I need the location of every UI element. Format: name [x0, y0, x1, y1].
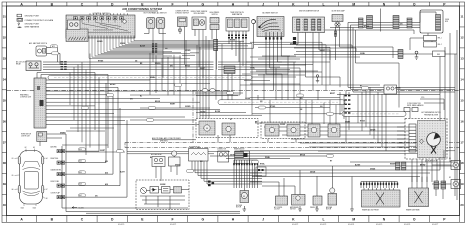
svg-text:RT/GE: RT/GE — [185, 65, 190, 67]
svg-text:RT/SW: RT/SW — [230, 40, 236, 42]
evaporator ladder connector — [409, 124, 416, 152]
svg-text:WS: WS — [300, 98, 303, 100]
svg-text:GROUND POINT: GROUND POINT — [25, 16, 41, 18]
heater unit front box — [362, 190, 401, 207]
blower switch pins — [265, 32, 267, 74]
blower switch S12 body — [257, 17, 284, 37]
svg-text:RES: RES — [437, 54, 440, 56]
pressure switch circle F3 — [141, 188, 147, 194]
svg-text:12: 12 — [460, 36, 464, 40]
svg-text:GE/WS: GE/WS — [370, 129, 375, 131]
ignition switch pins — [297, 33, 299, 45]
svg-text:61-0270: 61-0270 — [118, 224, 124, 226]
svg-text:15: 15 — [460, 98, 464, 102]
glove box lamp body — [332, 15, 343, 22]
fuse box connector comb — [436, 15, 441, 31]
ignition switch contact bars — [297, 19, 300, 31]
aux condenser dashed box 2 — [261, 122, 305, 139]
wires from control unit top — [36, 73, 38, 79]
svg-text:WS: WS — [200, 161, 203, 163]
svg-text:CONNECTOR WITH PLUG DATA: CONNECTOR WITH PLUG DATA — [25, 19, 54, 22]
right edge motor R10 — [451, 161, 461, 170]
svg-text:GE: GE — [135, 60, 137, 62]
relay box K2 — [424, 42, 437, 47]
svg-text:WS/RT: WS/RT — [170, 103, 175, 105]
wires fuse area — [427, 33, 429, 36]
legend ground point 2 symbol — [18, 23, 20, 25]
diode box D1 — [150, 187, 159, 194]
svg-text:INSIDE TEMP. SENSOR: INSIDE TEMP. SENSOR — [191, 11, 208, 13]
svg-text:J: J — [262, 217, 264, 221]
ground point G5 — [415, 51, 418, 54]
svg-text:GE: GE — [300, 109, 302, 111]
unit box compressor clutch — [276, 196, 288, 205]
wire fan from control switch — [89, 38, 214, 58]
car ground labels — [12, 147, 48, 210]
inline connector X16 — [407, 18, 412, 28]
svg-text:G101: G101 — [21, 208, 25, 210]
svg-text:O: O — [413, 217, 416, 221]
ground wires bottom — [351, 177, 353, 207]
aux blower box 2 — [308, 124, 320, 137]
svg-text:GN/RT: GN/RT — [100, 150, 105, 152]
svg-text:35: 35 — [3, 98, 7, 102]
svg-text:39: 39 — [3, 182, 7, 186]
ground point G20 — [316, 75, 318, 77]
grommets on divider — [202, 89, 208, 92]
svg-text:14: 14 — [460, 77, 464, 81]
svg-text:19: 19 — [460, 182, 464, 186]
row numbers right — [460, 6, 465, 207]
car top view outline — [20, 151, 43, 205]
heater unit rear box — [409, 188, 429, 207]
svg-text:TEMP. SWITCH ON: TEMP. SWITCH ON — [230, 12, 243, 14]
wire elbows down from bus — [348, 23, 399, 108]
rotary symbol — [251, 19, 255, 23]
svg-text:61-0272: 61-0272 — [292, 224, 298, 226]
unit box aux fan motor — [328, 194, 337, 206]
svg-text:M1: M1 — [449, 158, 451, 160]
condenser wires — [217, 135, 219, 142]
evaporator temp switch body — [226, 18, 249, 32]
svg-text:GE/RT: GE/RT — [200, 68, 205, 70]
ignition feed wires right — [296, 44, 352, 46]
svg-text:G2: G2 — [25, 147, 27, 149]
svg-text:BOTTOM PANEL AC SWITCH: BOTTOM PANEL AC SWITCH — [144, 11, 168, 14]
svg-text:SWITCH: SWITCH — [290, 209, 296, 211]
svg-text:BLOWER: BLOWER — [236, 205, 242, 207]
unit box antifreeze switch — [292, 195, 306, 206]
svg-text:GN/WS: GN/WS — [185, 106, 190, 108]
svg-text:G4: G4 — [46, 158, 48, 160]
svg-text:32: 32 — [3, 36, 7, 40]
bottom long wires — [66, 211, 240, 213]
column letters bottom — [7, 216, 460, 223]
inline connector X2 — [61, 61, 67, 70]
svg-text:F: F — [172, 217, 174, 221]
check control unit N4 body — [37, 132, 47, 142]
svg-text:REL.2: REL.2 — [438, 44, 442, 46]
svg-text:61-0274: 61-0274 — [348, 224, 354, 226]
wire bus right mid — [337, 87, 455, 94]
service wires — [262, 185, 295, 187]
svg-text:GN/SW: GN/SW — [160, 184, 166, 186]
relay box K4 right mid — [384, 85, 397, 94]
control switch top pin ticks — [90, 13, 127, 15]
long vertical wires from band — [95, 73, 118, 151]
wire code labels — [60, 23, 426, 197]
inline connector X9 tall comb — [214, 40, 218, 51]
svg-text:GE/GN: GE/GN — [310, 171, 316, 173]
evaporator temp switch pins — [228, 31, 230, 44]
inside temp sensor pins — [194, 30, 196, 37]
svg-text:WS/GN: WS/GN — [155, 63, 161, 65]
svg-text:HORN SWITCH: HORN SWITCH — [21, 134, 31, 136]
wire runs right bottom — [250, 162, 455, 177]
right edge connector combs — [434, 181, 439, 189]
legend connector symbol — [17, 18, 23, 21]
svg-text:BL: BL — [140, 95, 142, 97]
column letters top — [7, 2, 460, 6]
wire comb bundle X32 — [233, 160, 258, 188]
heater control unit N3 body — [34, 78, 46, 128]
control switch S10 body — [66, 15, 135, 38]
svg-text:13: 13 — [460, 56, 464, 60]
bottom panel A/C switch S11 body — [147, 18, 155, 29]
comb ties — [226, 158, 290, 160]
svg-text:G8: G8 — [46, 198, 48, 200]
section divider dash-dot 2 — [125, 141, 460, 143]
flap connector diamond — [420, 139, 424, 144]
svg-text:RT/SW: RT/SW — [364, 26, 370, 28]
svg-text:GROUND POINT: GROUND POINT — [25, 23, 41, 25]
svg-text:GN/BL: GN/BL — [250, 67, 255, 69]
car wheels — [18, 157, 44, 194]
svg-text:RT: RT — [230, 119, 232, 121]
harness tube right — [342, 112, 406, 117]
wires around X30 — [235, 69, 290, 71]
wire horizontals left lower — [62, 128, 125, 152]
svg-text:L: L — [323, 2, 325, 6]
svg-text:FUSE: FUSE — [445, 19, 449, 21]
glove box lamp pins — [335, 27, 337, 60]
harness tube left — [48, 75, 252, 79]
svg-text:REL.1: REL.1 — [438, 38, 442, 40]
svg-text:CONNECTOR: CONNECTOR — [217, 149, 226, 151]
resistor box R1 — [433, 51, 446, 57]
svg-text:CONSOLE SWITCH: CONSOLE SWITCH — [175, 13, 189, 15]
sheet reference numbers — [118, 224, 438, 226]
svg-text:M: M — [352, 2, 355, 6]
wire verticals right upper — [340, 87, 386, 151]
svg-text:18: 18 — [460, 161, 464, 165]
svg-text:37: 37 — [3, 140, 7, 144]
condenser fan motor M4 — [199, 121, 215, 135]
evaporator stippled area — [418, 121, 446, 158]
ground points bottom — [243, 206, 354, 211]
connector column vertical bus — [65, 134, 67, 212]
heater unit connector mark — [40, 100, 44, 106]
svg-text:G7: G7 — [46, 189, 48, 191]
svg-text:CONTROL UNIT: CONTROL UNIT — [20, 97, 31, 99]
continuation arrow — [72, 207, 77, 209]
wires inside dashed box — [147, 190, 151, 192]
evaporator bottom pins — [412, 159, 437, 182]
svg-text:BR/WS: BR/WS — [110, 84, 115, 86]
svg-text:33: 33 — [3, 56, 7, 60]
svg-text:BR/GE: BR/GE — [300, 154, 305, 156]
svg-text:GR/WS: GR/WS — [185, 50, 190, 52]
connector column plugs — [51, 146, 65, 199]
svg-text:BR/RT: BR/RT — [330, 93, 335, 95]
svg-text:GN/BL: GN/BL — [360, 53, 365, 55]
wires into evaporator comb — [397, 127, 409, 147]
inline connector X14 — [367, 16, 373, 29]
inline connector X15 — [393, 16, 399, 29]
right-angle feeders to divider — [240, 42, 380, 90]
relay bus wires — [43, 62, 330, 75]
svg-text:BL/WS: BL/WS — [355, 164, 360, 166]
svg-text:BOX: BOX — [445, 21, 448, 23]
svg-text:34: 34 — [3, 77, 7, 81]
wire jumpers upper center — [242, 56, 318, 84]
inline connector X8 — [152, 44, 157, 53]
legend ground point symbol — [17, 14, 22, 17]
oval wire tags — [82, 84, 369, 173]
A/C cutout relay K3 body — [26, 61, 41, 71]
svg-text:SW/GN: SW/GN — [395, 88, 401, 90]
svg-text:MOTOR: MOTOR — [236, 207, 241, 209]
svg-text:31: 31 — [3, 15, 7, 19]
svg-text:G102: G102 — [33, 208, 37, 210]
divider vertical segment — [192, 90, 194, 142]
svg-text:X255: X255 — [421, 97, 424, 99]
svg-text:G: G — [201, 217, 204, 221]
svg-text:G: G — [201, 2, 204, 6]
legend wire harness symbol — [18, 26, 22, 28]
svg-text:BL: BL — [150, 157, 152, 159]
wire verticals left lower — [70, 54, 90, 156]
condenser dashed box — [196, 119, 258, 138]
control switch pin comb — [89, 36, 134, 39]
svg-text:17: 17 — [460, 140, 464, 144]
svg-text:J: J — [262, 2, 264, 6]
svg-text:SW/BL: SW/BL — [150, 77, 155, 79]
blower motor M2 — [240, 191, 249, 203]
inline connector X17 — [398, 50, 403, 59]
evaporator blower motor M3 — [427, 133, 441, 147]
svg-text:CONTR. UNIT: CONTR. UNIT — [21, 136, 30, 138]
inline connector column X50 — [345, 90, 351, 142]
svg-text:M2: M2 — [449, 177, 451, 179]
connector strip X40 — [360, 182, 398, 189]
harness tube center — [218, 100, 345, 105]
right long verticals — [440, 30, 457, 200]
wires from control unit right — [49, 80, 231, 124]
svg-text:SW/RT: SW/RT — [345, 121, 350, 123]
svg-text:GN/WS: GN/WS — [97, 41, 102, 43]
svg-text:12 PIN CONNECTOR: 12 PIN CONNECTOR — [407, 103, 421, 105]
svg-text:CLUTCH: CLUTCH — [274, 209, 280, 211]
svg-text:CONNECTOR FOR: CONNECTOR FOR — [175, 11, 189, 13]
resistor box R3 — [162, 187, 171, 194]
unit box pressure switch — [313, 196, 322, 205]
svg-text:RT: RT — [360, 86, 362, 88]
relay box K1 — [424, 36, 437, 41]
right edge motor R11 — [451, 180, 461, 189]
blower switch rotary contacts — [259, 19, 281, 31]
connector ticks on evap drops — [228, 35, 247, 39]
svg-text:61-0273: 61-0273 — [320, 224, 326, 226]
svg-text:SW/GE: SW/GE — [120, 43, 125, 45]
svg-text:GN/GE: GN/GE — [280, 124, 285, 126]
pressure switch F1 body — [210, 18, 219, 24]
svg-text:16: 16 — [460, 119, 464, 123]
control switch internal contacts — [68, 17, 132, 33]
svg-text:M: M — [352, 217, 355, 221]
svg-text:38: 38 — [3, 161, 7, 165]
svg-text:O: O — [413, 2, 416, 6]
svg-text:61-0271: 61-0271 — [170, 224, 176, 226]
aux blower wires — [267, 139, 269, 143]
svg-text:36: 36 — [3, 119, 7, 123]
svg-text:GN/GE: GN/GE — [370, 168, 375, 170]
wire bus top right — [325, 12, 436, 34]
svg-text:61-0280: 61-0280 — [79, 207, 84, 209]
inline connector X31 — [235, 152, 244, 158]
svg-text:WITH BLOWER: WITH BLOWER — [194, 13, 206, 15]
svg-text:M: M — [206, 128, 208, 130]
control switch hatch strip — [69, 37, 87, 40]
check unit wires — [47, 133, 66, 135]
aux water pump M5 — [172, 151, 177, 156]
wire mesh center verticals — [150, 36, 342, 124]
wire mesh center horizontals — [130, 93, 342, 120]
connector column nested L wires — [65, 78, 127, 198]
svg-text:SW/WS: SW/WS — [60, 132, 66, 134]
svg-text:BR/SW: BR/SW — [420, 164, 426, 166]
section divider dash-dot line — [7, 89, 35, 91]
svg-text:RT/WS: RT/WS — [98, 60, 103, 62]
wire band continuations — [182, 41, 254, 55]
section divider dash-dot 3 — [125, 147, 460, 149]
junction blocks — [208, 181, 211, 183]
svg-text:RT/WS: RT/WS — [270, 106, 275, 108]
aux blower box 3 — [328, 124, 340, 137]
row numbers left — [2, 6, 7, 216]
svg-text:20: 20 — [460, 203, 464, 207]
svg-text:F: F — [172, 2, 174, 6]
relay drop wires and band — [192, 161, 262, 184]
svg-text:WS/SW: WS/SW — [390, 163, 396, 165]
multi-pin connector X30 — [224, 66, 235, 74]
relay small box bottom center — [256, 167, 266, 176]
svg-text:BL/SW: BL/SW — [215, 111, 221, 113]
svg-text:61-0276: 61-0276 — [404, 224, 410, 226]
svg-text:BR/GE: BR/GE — [155, 101, 160, 103]
svg-text:61-0277: 61-0277 — [432, 224, 438, 226]
svg-text:61-0275: 61-0275 — [376, 224, 382, 226]
svg-text:11: 11 — [460, 15, 463, 19]
aux fan relay K5 — [152, 157, 165, 167]
svg-text:L: L — [323, 217, 325, 221]
wires into heater boxes — [364, 177, 427, 191]
connector X18 body — [178, 17, 188, 27]
svg-text:G1: G1 — [12, 158, 14, 160]
svg-text:G5: G5 — [12, 175, 14, 177]
svg-text:WIRE HARNESS: WIRE HARNESS — [25, 26, 40, 29]
svg-text:HIGH PRESS.: HIGH PRESS. — [210, 12, 220, 14]
ignition starter switch body — [293, 17, 325, 33]
heater control unit pin comb — [46, 80, 49, 124]
front fuse box body — [420, 10, 443, 33]
svg-text:RT/BL: RT/BL — [260, 163, 265, 165]
connector combs mid right — [396, 162, 400, 170]
svg-text:40: 40 — [3, 203, 7, 207]
svg-text:MOTOR: MOTOR — [326, 209, 331, 211]
svg-text:BLOWER SWITCH: BLOWER SWITCH — [262, 12, 278, 14]
svg-text:GE/SW: GE/SW — [200, 111, 206, 113]
aux fan temp switch B2 body — [36, 46, 47, 56]
compressor control dashed box — [136, 180, 189, 210]
wire bundle into evaporator unit — [255, 123, 405, 151]
svg-text:G6: G6 — [12, 189, 14, 191]
svg-text:AIR CONDITIONING SYSTEM: AIR CONDITIONING SYSTEM — [122, 7, 162, 11]
svg-text:SWITCH: SWITCH — [212, 14, 218, 16]
bottom panel switch pins — [148, 29, 150, 34]
condenser sub box 2 — [222, 123, 235, 135]
pressure switch pins — [211, 30, 213, 40]
svg-text:WS/BL: WS/BL — [265, 157, 270, 159]
svg-text:GE/SW: GE/SW — [230, 154, 236, 156]
svg-text:GE/BR: GE/BR — [245, 98, 251, 100]
svg-text:RIGHT WHL: RIGHT WHL — [51, 158, 59, 160]
svg-text:CONTROL SWITCH: CONTROL SWITCH — [92, 13, 110, 15]
svg-text:G3: G3 — [33, 147, 35, 149]
connector X18 pins — [179, 27, 181, 35]
svg-text:RT: RT — [330, 160, 332, 162]
svg-text:GE/RT: GE/RT — [320, 50, 325, 52]
sensor wires — [47, 47, 58, 49]
svg-text:BL/RT: BL/RT — [120, 171, 125, 173]
svg-text:SW/GE: SW/GE — [175, 164, 180, 166]
inside temp sensor B10 body — [192, 17, 206, 30]
evaporator assembly dashed box — [405, 119, 447, 160]
small box inside dashed — [174, 187, 182, 194]
svg-text:RT/GE: RT/GE — [360, 120, 365, 122]
wire vertical — [380, 9, 382, 32]
svg-text:BL/GR: BL/GR — [140, 46, 146, 48]
inline connector X13 — [359, 18, 364, 28]
